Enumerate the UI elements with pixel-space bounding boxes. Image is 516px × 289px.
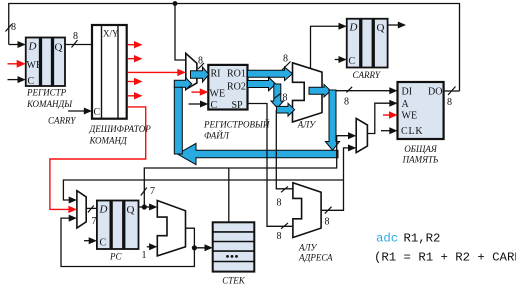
wire PC Q to line1 to memory mux <box>144 136 349 207</box>
wire IR C stub <box>8 79 20 81</box>
wire incrementer 1 input <box>147 246 151 248</box>
svg-text:adcR1,R2: adcR1,R2 <box>376 232 440 246</box>
bus width slashes <box>6 24 456 229</box>
wire RO2 tap to address ALU <box>276 110 293 189</box>
arrow red decoder out 4 <box>134 78 143 85</box>
wire IR Q to decoder <box>65 44 92 46</box>
arrow red decoder out 2 <box>134 55 143 62</box>
wire memory CLK stub <box>381 130 391 132</box>
register IR (РЕГИСТР КОМАНДЫ) <box>26 38 65 88</box>
arrow into memory A <box>389 100 397 107</box>
svg-text:8: 8 <box>283 93 288 104</box>
svg-text:(R1 = R1 + R2 + CARR: (R1 = R1 + R2 + CARR <box>374 251 516 265</box>
wire PC Q to incrementer <box>139 206 151 208</box>
memory (ОБЩАЯ ПАМЯТЬ) <box>398 82 444 139</box>
slash 8 on addr ALU out <box>325 207 332 214</box>
op-amp ALU (АЛУ) <box>293 63 323 122</box>
arrow into incrementer const 1 <box>149 243 157 250</box>
slash 8 on addr ALU in2 <box>281 223 288 229</box>
bus into mux M1 (thick cyan) <box>174 78 191 90</box>
svg-text:X/Y: X/Y <box>103 29 119 39</box>
svg-text:8: 8 <box>277 198 282 209</box>
wire red decoder out 4 <box>128 81 136 83</box>
slash 7 on PC Q riser <box>141 188 147 196</box>
bus ALU output (thick cyan) <box>309 84 331 97</box>
wire memory DO feedback top bus <box>9 4 460 92</box>
arrow into RF C <box>200 101 208 108</box>
svg-text:Q: Q <box>127 204 135 216</box>
wire SP to address ALU <box>248 104 293 227</box>
wire incrementer output to stack <box>186 228 207 248</box>
arrow into IR C <box>18 76 26 83</box>
svg-text:АЛУ: АЛУ <box>298 243 317 253</box>
svg-text:7: 7 <box>150 186 155 197</box>
red control wires <box>8 45 391 210</box>
svg-text:C: C <box>100 238 107 249</box>
slash 8 on RO1 bus <box>282 62 291 71</box>
wire red IR WE stub <box>8 63 19 65</box>
svg-text:ОБЩАЯ: ОБЩАЯ <box>404 144 438 154</box>
ALU address (АЛУ АДРЕСА) <box>293 183 321 238</box>
slash 7 on PC mux out <box>88 206 94 213</box>
wire CARRY C stub <box>335 59 340 61</box>
svg-text:КОМАНДЫ: КОМАНДЫ <box>26 99 73 109</box>
wire decoder CARRY input <box>68 110 86 112</box>
arrowheads (black) <box>18 22 407 252</box>
svg-text:СТЕК: СТЕК <box>222 276 246 286</box>
arrow into memory mux in1 <box>348 132 356 139</box>
svg-text:WE: WE <box>402 111 418 122</box>
svg-text:Q: Q <box>377 22 385 34</box>
label АЛУ АДРЕСА <box>298 243 333 263</box>
arrow into decoder C <box>84 108 92 115</box>
svg-text:PC: PC <box>109 252 122 262</box>
svg-text:КОМАНД: КОМАНД <box>89 136 129 146</box>
arrow out of CARRY Q <box>398 22 406 29</box>
svg-text:8: 8 <box>447 97 452 108</box>
wire IR D input <box>9 44 20 46</box>
svg-text:8: 8 <box>73 31 78 42</box>
mux M3 (memory address) <box>356 118 367 152</box>
wire red decoder out 5 <box>128 95 136 97</box>
svg-text:D: D <box>349 22 358 34</box>
arrow red select into mux M1 <box>177 69 186 76</box>
svg-text:8: 8 <box>11 22 16 33</box>
svg-text:WE: WE <box>210 89 226 100</box>
junction node dots <box>173 1 178 6</box>
slash 8 on ALU to DI <box>347 87 353 93</box>
wire red memory WE stub <box>383 114 391 116</box>
bus result return (bottom cyan bus) <box>177 143 338 164</box>
svg-text:CARRY: CARRY <box>353 70 381 80</box>
svg-text:RI: RI <box>211 69 221 80</box>
svg-text:8: 8 <box>283 54 288 65</box>
arrow red decoder out 1 <box>134 41 143 48</box>
slash 8 on IR Q out <box>72 40 78 48</box>
svg-text:DI: DI <box>402 87 413 98</box>
arrow into memory DI <box>389 87 397 94</box>
arrow into incrementer from PC <box>149 204 157 211</box>
arrow into PC mux in1 <box>69 197 77 204</box>
wire red decoder to PC mux <box>50 107 146 209</box>
bus riser to RI mux (thick cyan) <box>174 87 182 154</box>
svg-text:DO: DO <box>428 87 442 98</box>
svg-text:RO1: RO1 <box>227 69 246 80</box>
bus width numbers <box>11 22 452 261</box>
svg-text:WE: WE <box>27 60 43 71</box>
wire red decoder out 2 <box>128 58 136 60</box>
svg-text:Q: Q <box>55 42 63 54</box>
svg-text:8: 8 <box>344 97 349 108</box>
wire red RF WE stub <box>192 91 202 93</box>
arrow red decoder out 5 <box>134 92 143 99</box>
decoder U2 (ДЕШИФРАТОР КОМАНД) <box>92 25 127 119</box>
svg-text:7: 7 <box>92 216 97 227</box>
wire red decoder out select (to mux M1) <box>128 71 180 73</box>
arrow into stack push <box>205 244 213 251</box>
arrow into memory mux in2 <box>348 144 356 151</box>
label ДЕШИФРАТОР КОМАНД <box>89 124 152 146</box>
svg-text:CARRY: CARRY <box>48 116 76 126</box>
wire ALU carry out to CARRY D <box>311 26 340 68</box>
wire address ALU output riser <box>321 148 349 210</box>
wire PC C stub <box>84 240 91 242</box>
svg-text:8: 8 <box>277 231 282 242</box>
red arrowheads <box>17 41 398 213</box>
svg-text:C: C <box>211 100 218 111</box>
svg-text:SP: SP <box>232 100 244 111</box>
mux M2 (PC input) <box>77 191 86 228</box>
slash 8 on RO2 bus <box>274 93 282 99</box>
wire ALU result to DI <box>336 90 391 92</box>
register PC <box>97 201 139 250</box>
arrow into CARRY D <box>339 23 347 30</box>
wire RF C stub <box>189 103 202 105</box>
arrow into PC mux in3 <box>69 215 77 222</box>
svg-text:C: C <box>94 107 101 118</box>
wire red decoder out 1 <box>128 44 136 46</box>
label РЕГИСТРОВЫЙ ФАЙЛ <box>203 120 270 141</box>
mux M1 (before RI) <box>186 53 197 89</box>
svg-text:РЕГИСТР: РЕГИСТР <box>26 88 67 98</box>
label РЕГИСТР КОМАНДЫ <box>26 88 73 110</box>
svg-text:D: D <box>99 204 108 216</box>
arrow red into PC mux in2 <box>68 206 77 213</box>
svg-text:АЛУ: АЛУ <box>297 120 316 130</box>
stack (СТЕК) <box>213 222 255 271</box>
instruction text: adc R1,R2 <box>374 232 516 265</box>
arrow into CARRY C <box>339 56 347 63</box>
svg-text:РЕГИСТРОВЫЙ: РЕГИСТРОВЫЙ <box>203 120 270 130</box>
wire CARRY Q output <box>388 24 399 26</box>
svg-text:A: A <box>402 99 410 110</box>
node incrementer output junction <box>192 245 197 250</box>
svg-text:ФАЙЛ: ФАЙЛ <box>204 131 230 141</box>
wire memory mux output to A <box>367 103 390 133</box>
bus RO2 to ALU lower input (thick cyan) <box>277 103 295 116</box>
bus RO1 to ALU (thick cyan) <box>248 67 293 81</box>
wire increment loop to PC mux input3 <box>61 218 194 266</box>
node PC Q junction <box>142 204 147 209</box>
svg-text:CLK: CLK <box>401 126 423 137</box>
svg-text:1: 1 <box>142 250 147 261</box>
register CARRY (flip-flop) <box>347 19 388 68</box>
arrow into PC C <box>89 237 97 244</box>
svg-text:ПАМЯТЬ: ПАМЯТЬ <box>402 155 439 165</box>
register file (РЕГИСТРОВЫЙ ФАЙЛ) <box>208 65 247 111</box>
svg-text:8: 8 <box>198 56 203 67</box>
bus ALU result down (thick cyan) <box>325 90 339 150</box>
wire PC mux output <box>86 207 97 209</box>
svg-text:8: 8 <box>325 217 330 228</box>
svg-text:C: C <box>349 56 356 67</box>
slash 8 on addr ALU in1 <box>281 186 288 192</box>
wire top bus branch to mux M1 <box>175 4 186 61</box>
incrementer (PC+1 adder) <box>157 201 185 256</box>
wire DO to top bus <box>444 90 460 92</box>
svg-text:RO2: RO2 <box>227 82 246 93</box>
svg-text:D: D <box>28 41 37 53</box>
slash 8 on RI bus <box>198 63 204 69</box>
slash 8 on DO out <box>448 87 456 96</box>
arrow into memory CLK <box>389 127 397 134</box>
bus RO2 vertical down (thick cyan) <box>271 84 284 108</box>
arrow red into RF WE <box>200 88 209 95</box>
label ОБЩАЯ ПАМЯТЬ <box>402 144 439 165</box>
wire line2 to PC mux input1 <box>63 180 343 200</box>
slash 8 on DO feedback left <box>6 24 13 32</box>
arrow red into IR WE <box>17 60 26 68</box>
arrow red into memory WE <box>389 111 398 118</box>
bus RO2 horizontal (thick cyan) <box>248 77 276 91</box>
bus mux to RI (thick cyan) <box>191 67 209 82</box>
svg-text:АДРЕСА: АДРЕСА <box>298 253 333 263</box>
wire line1 branch to stack <box>228 168 230 222</box>
svg-text:C: C <box>28 76 35 87</box>
arrow into IR D <box>18 41 26 48</box>
svg-text:ДЕШИФРАТОР: ДЕШИФРАТОР <box>89 124 152 134</box>
